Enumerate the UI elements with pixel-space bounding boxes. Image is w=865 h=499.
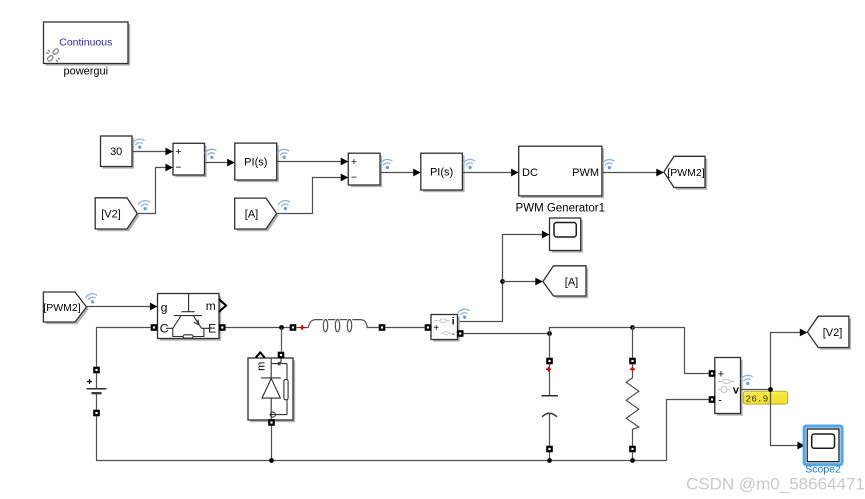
wire resistor node to voltage measurement plus: [633, 328, 709, 374]
signal logging badge on PWM output: [602, 159, 615, 171]
svg-text:PWM: PWM: [572, 167, 599, 179]
wire sum1 to PI controller 1: [205, 159, 235, 167]
svg-text:−: −: [175, 162, 181, 174]
wire 30 to sum1 plus input: [132, 148, 173, 156]
wire capacitor to ground bus: [549, 452, 551, 460]
diode top port: [278, 352, 285, 359]
resistor top port: [629, 358, 636, 365]
wire v signal down to Scope2: [771, 390, 806, 450]
Goto tag [V2]: [807, 316, 851, 350]
From tag [V2]: [95, 198, 139, 231]
signal logging badge on i output: [457, 308, 470, 320]
signal logging badge on V2 output: [138, 200, 151, 212]
svg-text:-: -: [452, 329, 455, 340]
wire DC source negative to ground bus: [97, 416, 667, 460]
wire capacitor node to resistor node: [550, 328, 633, 334]
Goto tag [A]: [543, 266, 588, 298]
resistor polarity plus: [630, 367, 635, 372]
voltage measurement - port: [709, 396, 716, 403]
sum block Sum1: [173, 143, 207, 177]
signal logging badge on PI2 output: [463, 158, 476, 170]
svg-text:i: i: [452, 317, 455, 328]
powergui block: [44, 22, 131, 66]
svg-text:powergui: powergui: [63, 66, 108, 78]
wire ground bus to voltage measurement minus: [667, 400, 709, 461]
wire v signal up to Goto [V2]: [771, 329, 808, 390]
capacitor bottom port: [546, 446, 553, 453]
value display 26.9: [743, 391, 787, 404]
junction node resistor top: [630, 325, 635, 330]
voltage measurement block: [715, 358, 743, 416]
signal logging badge on PI1 output: [277, 148, 290, 160]
constant block 30: [101, 136, 135, 169]
wire current measurement i output to scope: [458, 231, 550, 322]
svg-text:[PWM2]: [PWM2]: [667, 167, 704, 179]
wire A to sum2 minus input: [277, 174, 349, 214]
svg-text:[A]: [A]: [565, 276, 578, 288]
IGBT C port: [151, 324, 158, 331]
inductor left port: [290, 324, 297, 331]
sum block Sum2: [348, 153, 382, 187]
wire diode cathode to ground bus: [271, 426, 273, 461]
IGBT block: [158, 294, 227, 341]
svg-text:Continuous: Continuous: [59, 37, 112, 49]
svg-text:+: +: [718, 368, 724, 380]
signal logging badge on A from output: [278, 200, 291, 212]
DC voltage source battery symbol: [87, 373, 107, 409]
DC voltage source top port: [93, 367, 100, 374]
svg-text:+: +: [351, 156, 357, 168]
svg-text:PI(s): PI(s): [430, 166, 453, 178]
wire inductor to current measurement: [385, 327, 424, 329]
signal logging badge on sum2 output: [380, 158, 393, 170]
capacitor top port: [546, 358, 553, 365]
svg-text:DC: DC: [522, 167, 538, 179]
svg-text:g: g: [161, 300, 168, 314]
PID controller PI(s) 2: [421, 153, 465, 192]
DC voltage source bottom port: [93, 410, 100, 417]
capacitor polarity plus: [546, 367, 551, 372]
wire PWM Generator1 to Goto [PWM2]: [602, 169, 664, 177]
current measurement + port: [425, 324, 432, 331]
wire current minus to capacitor node: [464, 333, 550, 335]
junction node capacitor top: [547, 331, 552, 336]
svg-text:26.9: 26.9: [746, 393, 769, 404]
From tag [A]: [235, 198, 279, 231]
wire IGBT collector to DC source positive: [97, 328, 151, 367]
junction node resistor-bus: [630, 458, 635, 463]
junction node at diode branch: [279, 325, 284, 330]
svg-text:m: m: [256, 362, 268, 371]
wire IGBT emitter to inductor: [226, 327, 290, 329]
PWM Generator1 block: [519, 146, 604, 198]
wire down to diode anode: [281, 328, 283, 352]
wire V2 to sum1 minus input: [137, 164, 173, 214]
Scope2 block (selected): [804, 426, 842, 465]
current measurement block: [431, 315, 460, 342]
PID controller PI(s) 1: [235, 143, 279, 182]
svg-text:CSDN @m0_58664471: CSDN @m0_58664471: [686, 475, 865, 494]
inductor polarity plus: [300, 325, 305, 330]
junction node diode-bus: [269, 458, 274, 463]
svg-text:−: −: [351, 172, 357, 184]
wire resistor to ground bus: [632, 452, 634, 460]
scope block (current scope): [550, 218, 583, 253]
svg-text:30: 30: [110, 146, 122, 158]
resistor bottom port: [629, 446, 636, 453]
inductor right port: [379, 324, 386, 331]
svg-text:PWM Generator1: PWM Generator1: [516, 202, 605, 214]
junction node capacitor-bus: [547, 458, 552, 463]
IGBT E port: [219, 324, 226, 331]
wire PI1 to sum2 plus input: [277, 158, 349, 166]
signal logging badge on 30 output: [132, 138, 145, 150]
svg-text:[PWM2]: [PWM2]: [43, 302, 80, 314]
wire branch to Goto [A]: [503, 278, 543, 286]
capacitor symbol: [542, 364, 559, 445]
svg-text:[A]: [A]: [245, 208, 258, 220]
wire down to capacitor: [549, 334, 551, 358]
signal logging badge on PWM2 from output: [85, 293, 98, 305]
wire PI2 to PWM Generator1: [462, 169, 518, 177]
wire sum2 to PI controller 2: [380, 169, 421, 177]
svg-text:-: -: [718, 395, 722, 407]
signal logging badge on v output: [741, 374, 754, 386]
svg-text:v: v: [733, 384, 740, 396]
svg-text:[V2]: [V2]: [101, 208, 121, 220]
wire PWM2 to IGBT gate: [87, 303, 158, 311]
svg-text:m: m: [206, 299, 216, 313]
junction node on i signal: [500, 279, 505, 284]
wire voltage measurement output: [741, 389, 771, 391]
svg-text:[V2]: [V2]: [823, 327, 843, 339]
diode bottom port: [268, 419, 275, 426]
voltage measurement + port: [709, 370, 716, 377]
svg-text:+: +: [433, 323, 439, 334]
svg-text:PI(s): PI(s): [244, 157, 267, 169]
wire down to resistor: [632, 328, 634, 358]
resistor zigzag symbol: [626, 364, 639, 445]
svg-text:+: +: [175, 146, 181, 158]
current measurement - port: [457, 330, 464, 337]
Goto tag [PWM2]: [664, 156, 707, 189]
junction node v output: [768, 387, 773, 392]
inductor coil: [296, 320, 378, 332]
diode block (rotated): [248, 353, 295, 423]
From tag [PWM2]: [43, 292, 88, 324]
signal logging badge on sum1 output: [205, 148, 218, 160]
